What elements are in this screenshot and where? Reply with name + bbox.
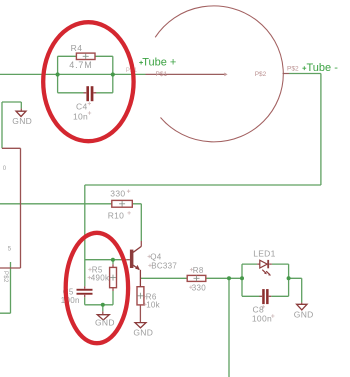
svg-text:100n: 100n <box>252 313 272 323</box>
svg-text:P$2: P$2 <box>2 271 8 283</box>
svg-text:Q4: Q4 <box>150 252 162 261</box>
svg-text:C4: C4 <box>76 102 87 112</box>
svg-text:R8: R8 <box>193 266 204 275</box>
svg-text:P$2: P$2 <box>255 71 267 78</box>
svg-text:5: 5 <box>8 247 12 253</box>
svg-text:LED1: LED1 <box>253 248 275 258</box>
svg-text:P$1: P$1 <box>156 71 168 78</box>
svg-text:10k: 10k <box>146 300 160 309</box>
svg-text:Tube -: Tube - <box>307 62 339 74</box>
svg-text:GND: GND <box>294 310 314 320</box>
svg-text:100n: 100n <box>61 296 80 305</box>
svg-text:330: 330 <box>110 188 125 198</box>
svg-text:10n: 10n <box>73 111 88 121</box>
svg-text:P$2: P$2 <box>287 66 299 73</box>
svg-text:GND: GND <box>12 116 32 126</box>
svg-text:R4: R4 <box>71 43 83 53</box>
svg-text:GND: GND <box>95 318 115 328</box>
svg-text:0: 0 <box>3 166 7 172</box>
svg-text:490k: 490k <box>91 274 110 283</box>
svg-text:R10: R10 <box>108 210 125 220</box>
svg-text:GND: GND <box>133 327 153 337</box>
svg-text:330: 330 <box>192 284 206 293</box>
svg-text:4.7M: 4.7M <box>69 60 92 70</box>
svg-text:Tube +: Tube + <box>142 57 176 69</box>
svg-text:BC337: BC337 <box>151 261 177 270</box>
